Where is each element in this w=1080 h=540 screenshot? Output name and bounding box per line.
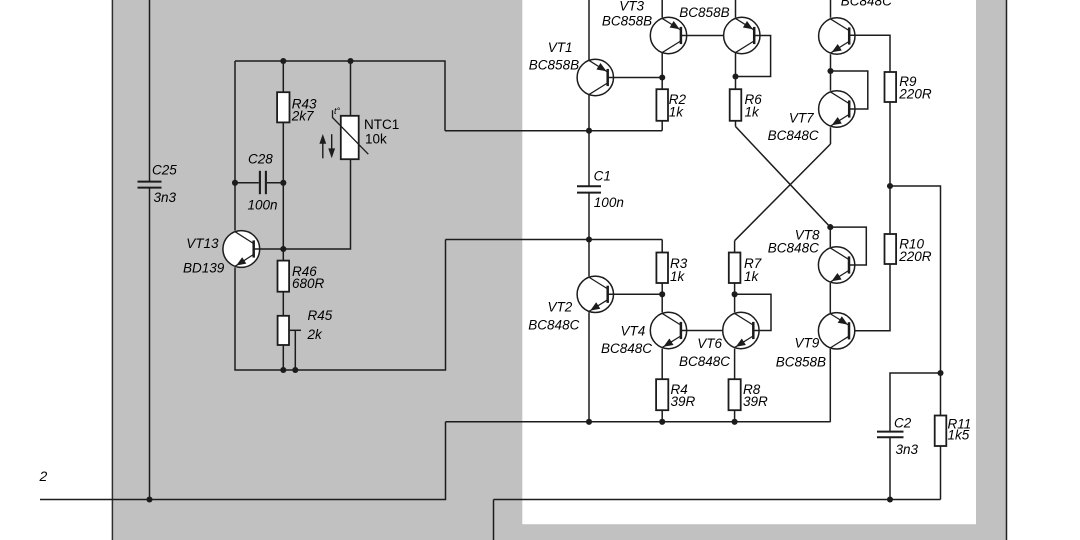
label BC848C VT7 bbox=[768, 128, 819, 143]
svg-text:BC848C: BC848C bbox=[768, 241, 819, 256]
svg-text:220R: 220R bbox=[898, 249, 932, 264]
wire R9 bottom lead bbox=[889, 102, 891, 186]
svg-text:3n3: 3n3 bbox=[154, 190, 177, 205]
wire R6 bottom lead bbox=[735, 121, 737, 127]
junction C2 bottom rail bbox=[887, 496, 893, 502]
wire VT3 base to VT5 bbox=[681, 35, 753, 37]
label VT9 bbox=[795, 335, 820, 350]
wire bottom rail drop bbox=[493, 500, 495, 540]
thermistor NTC1 bbox=[333, 106, 400, 159]
svg-text:3n3: 3n3 bbox=[896, 442, 919, 457]
capacitor C1 bbox=[577, 169, 624, 210]
frame right border bbox=[1006, 0, 1008, 540]
label VT1 bbox=[548, 40, 573, 55]
NTC1 adjust arrow up bbox=[319, 134, 326, 158]
svg-text:C2: C2 bbox=[894, 416, 912, 431]
wire R3 top lead bbox=[661, 240, 663, 253]
wire R4 bottom lead bbox=[661, 410, 663, 422]
svg-text:VT9: VT9 bbox=[795, 335, 820, 350]
wire VT2 collector bbox=[588, 240, 590, 277]
wire R45 bottom lead bbox=[282, 345, 284, 370]
svg-text:1k: 1k bbox=[669, 105, 685, 120]
junction top rail R43 bbox=[280, 58, 286, 64]
svg-text:220R: 220R bbox=[898, 87, 932, 102]
wire VT4 collector bbox=[661, 294, 663, 312]
wire top transistor base to R9 bbox=[849, 35, 890, 72]
wire C25 bottom lead bbox=[149, 188, 151, 499]
junction R45 wiper bbox=[292, 367, 298, 373]
NTC1 adjust arrow down bbox=[328, 134, 335, 158]
label BC848C VT6 bbox=[679, 354, 730, 369]
transistor VT5 bbox=[724, 17, 760, 53]
svg-text:VT6: VT6 bbox=[697, 336, 722, 351]
label VT2 bbox=[548, 300, 573, 315]
wire R10 bottom to VT9 base bbox=[849, 264, 890, 331]
svg-text:2k7: 2k7 bbox=[291, 109, 314, 124]
transistor VT3 bbox=[650, 17, 686, 53]
wire R43 top lead bbox=[282, 61, 284, 92]
wire R3 bottom lead bbox=[661, 283, 663, 294]
resistor R11 bbox=[935, 416, 972, 447]
svg-text:BC858B: BC858B bbox=[776, 354, 826, 369]
svg-text:VT2: VT2 bbox=[548, 300, 573, 315]
svg-text:BC848C: BC848C bbox=[528, 318, 579, 333]
wire VT6 collector bbox=[734, 294, 736, 312]
wire VT3 collector bbox=[661, 53, 663, 78]
capacitor C2 bbox=[877, 416, 919, 458]
wire R2 bottom lead bbox=[661, 121, 663, 131]
junction top rail NTC1 bbox=[347, 58, 353, 64]
transistor VT8 bbox=[818, 247, 854, 283]
wire branch to R11 bbox=[890, 186, 941, 416]
junction VT13 base node bbox=[280, 246, 286, 252]
junction VT7 collector node bbox=[827, 68, 833, 74]
label VT3 bbox=[619, 0, 644, 14]
label BC858B VT1 bbox=[529, 57, 579, 72]
resistor R4 bbox=[656, 379, 695, 410]
wire VT1 emitter up bbox=[588, 0, 590, 61]
resistor R43 bbox=[277, 92, 317, 123]
wire R43 bottom / divider column bbox=[282, 122, 284, 260]
label BC858B VT3 bbox=[602, 14, 652, 29]
label BC858B VT5 bbox=[679, 5, 729, 20]
svg-text:2: 2 bbox=[39, 468, 48, 484]
resistor R6 bbox=[730, 89, 763, 121]
wire mid rail to white area bbox=[446, 239, 663, 241]
transistor VT9 bbox=[818, 313, 854, 349]
wire VT6 emitter bbox=[734, 349, 736, 380]
wire R7 bottom lead bbox=[734, 283, 736, 294]
highlighted white region bbox=[522, 0, 976, 524]
label VT7 bbox=[789, 111, 814, 126]
wire R10 top lead bbox=[889, 186, 891, 234]
wire C25 top lead bbox=[149, 0, 151, 181]
wire VT4 base to VT6 base bbox=[681, 330, 753, 332]
wire VT2 base lead bbox=[608, 293, 663, 295]
junction VT1 base/R2 bbox=[659, 74, 665, 80]
transistor VT4 bbox=[650, 312, 686, 348]
label VT4 bbox=[621, 324, 646, 339]
wire R7 top lead bbox=[734, 241, 736, 253]
svg-text:VT13: VT13 bbox=[186, 236, 219, 251]
svg-text:BC848C: BC848C bbox=[601, 341, 652, 356]
wire C28 right lead bbox=[267, 182, 283, 184]
wire R11 bottom lead bbox=[940, 446, 942, 500]
transistor VT6 bbox=[723, 312, 759, 348]
wire VT5 emitter up bbox=[735, 0, 737, 18]
svg-text:BD139: BD139 bbox=[183, 260, 225, 275]
wire VT8 emitter to VT9 bbox=[829, 283, 831, 313]
svg-text:t°: t° bbox=[334, 106, 341, 116]
svg-text:680R: 680R bbox=[292, 276, 325, 291]
wire VT6 base loop bbox=[735, 294, 771, 330]
svg-text:1k5: 1k5 bbox=[948, 428, 970, 443]
label BC848C VT4 bbox=[601, 341, 652, 356]
wire C1 top lead bbox=[588, 131, 590, 186]
wire VT8 collector bbox=[829, 227, 831, 247]
capacitor C28 bbox=[248, 152, 278, 213]
label BD139 bbox=[183, 260, 225, 275]
resistor R7 bbox=[729, 253, 762, 285]
svg-text:BC858B: BC858B bbox=[602, 14, 652, 29]
junction C28 left on VT13 collector bbox=[232, 180, 238, 186]
wire VT4 emitter bbox=[661, 349, 663, 380]
wire VT2 emitter bbox=[588, 312, 590, 422]
junction C28 right bbox=[280, 180, 286, 186]
label BC848C VT2 bbox=[528, 318, 579, 333]
resistor R2 bbox=[656, 89, 686, 121]
wire VT8 base loop bbox=[830, 227, 866, 265]
wire top transistor collector up bbox=[830, 0, 832, 18]
transistor VT2 bbox=[577, 276, 613, 312]
svg-text:BC858B: BC858B bbox=[529, 57, 579, 72]
svg-text:VT1: VT1 bbox=[548, 40, 573, 55]
wire C2 top lead bbox=[890, 373, 941, 431]
junction VT2 emitter rail bbox=[586, 419, 592, 425]
junction R8 rail bbox=[732, 419, 738, 425]
svg-text:39R: 39R bbox=[671, 394, 696, 409]
label BC848C VT8 bbox=[768, 241, 819, 256]
node 2 label bbox=[39, 468, 48, 484]
wire R45 wiper arm bbox=[289, 329, 301, 331]
wire C2 bottom lead bbox=[889, 438, 891, 500]
junction VT8 collector node bbox=[827, 224, 833, 230]
wire R46-R45 link bbox=[282, 292, 284, 316]
wire VT9 emitter down bbox=[829, 349, 831, 422]
cross wire VT7 to R7 bbox=[735, 144, 831, 241]
wire VT13 emitter bbox=[235, 240, 446, 371]
resistor R45 bbox=[278, 308, 333, 345]
svg-text:R45: R45 bbox=[308, 308, 333, 323]
transistor VT7 bbox=[819, 91, 855, 127]
svg-text:C25: C25 bbox=[152, 162, 177, 177]
junction R7/VT6 bbox=[732, 291, 738, 297]
resistor R9 bbox=[885, 72, 932, 102]
wire VT5 collector bbox=[735, 53, 737, 90]
label VT13 bbox=[186, 236, 219, 251]
wire R45 wiper drop bbox=[294, 330, 296, 370]
wire NTC1 bottom lead bbox=[283, 159, 350, 249]
svg-text:10k: 10k bbox=[365, 131, 387, 146]
junction R9/R10/R11 branch bbox=[887, 183, 893, 189]
junction C2 branch bbox=[937, 370, 943, 376]
label VT8 bbox=[795, 228, 820, 243]
svg-text:BC858B: BC858B bbox=[679, 5, 729, 20]
svg-text:VT3: VT3 bbox=[619, 0, 644, 14]
resistor R8 bbox=[729, 379, 769, 410]
wire VT7 collector bbox=[830, 71, 832, 91]
junction input/C25 bbox=[146, 496, 152, 502]
wire NTC1 top lead bbox=[350, 61, 352, 116]
wire C28 left lead bbox=[235, 182, 259, 184]
resistor R10 bbox=[885, 234, 932, 264]
svg-text:C28: C28 bbox=[248, 152, 273, 167]
svg-text:1k: 1k bbox=[670, 269, 686, 284]
wire C1 bottom lead bbox=[588, 193, 590, 239]
junction C1 bottom rail bbox=[586, 236, 592, 242]
wire VT5 base loop bbox=[736, 36, 771, 77]
wire VT7 emitter drop bbox=[830, 127, 832, 144]
wire bottom right rail bbox=[494, 499, 941, 501]
svg-text:NTC1: NTC1 bbox=[364, 117, 399, 132]
svg-text:100n: 100n bbox=[594, 195, 624, 210]
transistor VT13 bbox=[223, 231, 260, 268]
svg-text:39R: 39R bbox=[743, 394, 768, 409]
wire VT7 base loop bbox=[831, 71, 868, 109]
junction R4 rail bbox=[659, 419, 665, 425]
transistor VT (top right) bbox=[819, 18, 855, 54]
svg-text:1k: 1k bbox=[744, 269, 760, 284]
wire R8 bottom lead bbox=[734, 410, 736, 422]
junction VT2 base/R3/VT4 bbox=[659, 291, 665, 297]
wire VT3 emitter up bbox=[661, 0, 663, 18]
wire R2 top lead bbox=[661, 78, 663, 90]
resistor R46 bbox=[278, 261, 325, 292]
svg-text:100n: 100n bbox=[248, 198, 278, 213]
capacitor C25 bbox=[138, 162, 178, 205]
resistor R3 bbox=[656, 253, 687, 285]
svg-text:BC848C: BC848C bbox=[841, 0, 892, 9]
svg-text:2k: 2k bbox=[307, 327, 324, 342]
label BC858B VT9 bbox=[776, 354, 826, 369]
wire top supply of VT13 block bbox=[235, 61, 445, 131]
svg-text:BC848C: BC848C bbox=[679, 354, 730, 369]
wire VT13 collector bbox=[234, 61, 236, 231]
svg-text:C1: C1 bbox=[594, 169, 611, 184]
wire VT1 collector down bbox=[588, 95, 590, 131]
svg-text:VT7: VT7 bbox=[789, 111, 814, 126]
svg-text:VT4: VT4 bbox=[621, 324, 646, 339]
wire net to VT1 collector row bbox=[445, 130, 662, 132]
label VT6 bbox=[697, 336, 722, 351]
wire VT1 base lead bbox=[608, 77, 663, 79]
junction VT5 collector/base bbox=[732, 73, 738, 79]
wire input net 2 bbox=[40, 422, 446, 500]
svg-text:BC848C: BC848C bbox=[768, 128, 819, 143]
svg-text:1k: 1k bbox=[745, 105, 761, 120]
cross wire R6 to VT8 bbox=[736, 127, 831, 228]
wire VT13 base lead bbox=[254, 248, 284, 250]
junction R45 bottom bbox=[280, 367, 286, 373]
frame left border bbox=[111, 0, 113, 540]
transistor VT1 bbox=[577, 59, 613, 95]
wire top transistor emitter bbox=[830, 54, 832, 71]
wire emitter rail bbox=[446, 421, 831, 423]
label BC848C top (clipped) bbox=[841, 0, 892, 9]
junction VT1 collector node bbox=[586, 128, 592, 134]
